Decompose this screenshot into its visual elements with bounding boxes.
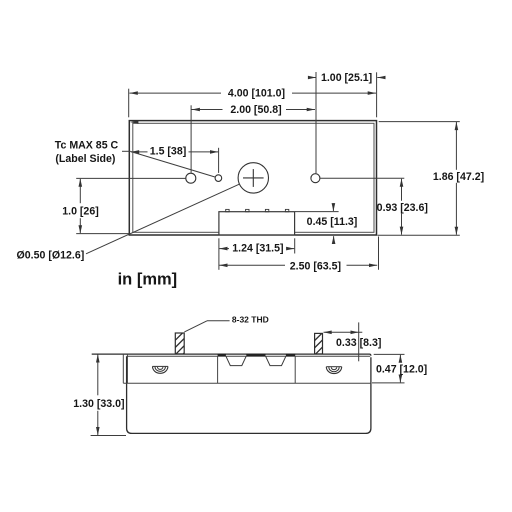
- svg-text:(Label Side): (Label Side): [55, 153, 115, 165]
- svg-text:0.45 [11.3]: 0.45 [11.3]: [307, 216, 358, 228]
- dimension 1.00 [25.1] line: [308, 77, 316, 79]
- extension line top-right corner: [376, 72, 378, 117]
- mounting stud right 8-32: [315, 333, 323, 354]
- svg-text:0.33 [8.3]: 0.33 [8.3]: [336, 337, 381, 349]
- leader 8-32 THD to stud: [207, 320, 230, 322]
- svg-text:2.00 [50.8]: 2.00 [50.8]: [230, 104, 281, 116]
- terminal block (top view): [219, 212, 295, 235]
- svg-text:1.24 [31.5]: 1.24 [31.5]: [232, 243, 283, 255]
- svg-text:1.0 [26]: 1.0 [26]: [62, 205, 99, 217]
- extension line block right down: [294, 238, 296, 253]
- dimension 1.86 [47.2] line: [455, 122, 457, 170]
- hole centerline right segment: [320, 177, 404, 179]
- svg-text:4.00 [101.0]: 4.00 [101.0]: [228, 88, 285, 100]
- leader Tc to small hole: [122, 150, 131, 152]
- mounting stud left 8-32: [175, 333, 184, 354]
- top view inner body outline: [133, 123, 374, 232]
- extension line right edge down: [378, 237, 380, 270]
- side view terminal block dividers: [217, 356, 219, 383]
- dimension 1.24 [31.5] line: [219, 248, 229, 250]
- side view body outline: [127, 356, 371, 433]
- svg-text:0.47 [12.0]: 0.47 [12.0]: [376, 364, 427, 376]
- svg-text:1.86 [47.2]: 1.86 [47.2]: [433, 171, 484, 183]
- mounting hole left: [186, 173, 196, 183]
- dimension 1.5 [38] line: [131, 151, 148, 153]
- dimension 4.00 [101.0] line: [129, 92, 221, 94]
- small hole (Tc point): [215, 175, 222, 182]
- side view screw head right: [326, 367, 341, 374]
- side view body top line: [127, 355, 370, 357]
- svg-text:1.5 [38]: 1.5 [38]: [150, 146, 187, 158]
- extension line body bottom left: [91, 435, 126, 437]
- extension line bottom-right: [378, 234, 460, 236]
- svg-text:2.50 [63.5]: 2.50 [63.5]: [290, 260, 341, 272]
- svg-text:0.93 [23.6]: 0.93 [23.6]: [377, 202, 428, 214]
- side view flange left tab: [122, 354, 124, 383]
- extension line right hole up: [315, 72, 317, 173]
- extension line 0.33 vertical: [358, 322, 360, 361]
- center hole Ø0.50: [238, 163, 268, 193]
- side view terminal block thick edge: [218, 354, 226, 356]
- dimension 0.93 [23.6] line: [401, 179, 403, 201]
- top view outer flange outline: [129, 121, 376, 235]
- extension line bottom-left: [76, 233, 129, 235]
- svg-text:1.00 [25.1]: 1.00 [25.1]: [321, 72, 372, 84]
- svg-text:8-32 THD: 8-32 THD: [232, 315, 269, 325]
- mounting hole right: [311, 174, 320, 183]
- center hole crosshair: [243, 177, 264, 179]
- svg-text:Tc MAX 85 C: Tc MAX 85 C: [55, 139, 119, 151]
- extension line left hole up: [190, 105, 192, 172]
- dimension 0.47 [12.0] line: [399, 355, 401, 361]
- extension line flange top right: [374, 353, 405, 355]
- terminal block pins: [226, 209, 229, 211]
- svg-text:1.30 [33.0]: 1.30 [33.0]: [73, 398, 124, 410]
- side view wire funnel left: [226, 356, 246, 365]
- leader Ø0.50 to center hole: [86, 184, 240, 254]
- svg-text:Ø0.50 [Ø12.6]: Ø0.50 [Ø12.6]: [17, 250, 85, 262]
- dimension 2.50 [63.5] line: [219, 264, 285, 266]
- extension line left (4.00): [128, 89, 130, 118]
- svg-text:in [mm]: in [mm]: [118, 270, 178, 288]
- dimension 1.30 [33.0] line: [97, 355, 99, 396]
- side view wire funnel right: [266, 356, 286, 365]
- dimension 2.00 [50.8] line: [192, 109, 223, 111]
- dimension 0.33 [8.3] line: [324, 331, 363, 333]
- extension line block top right: [295, 211, 339, 213]
- hole centerline left segment: [76, 177, 186, 179]
- extension line top-right: [379, 121, 460, 123]
- dimension 1.0 [26] line: [79, 179, 81, 203]
- arrow at top-left corner: [130, 120, 138, 124]
- side view screw head left: [153, 366, 168, 373]
- extension line block left down: [218, 238, 220, 269]
- side view flange top line: [92, 354, 371, 356]
- side view divider line: [123, 382, 371, 384]
- dimension 0.45 [11.3] arrows: [332, 203, 334, 211]
- extension line divider right: [372, 382, 405, 384]
- extension line small hole up: [218, 148, 220, 173]
